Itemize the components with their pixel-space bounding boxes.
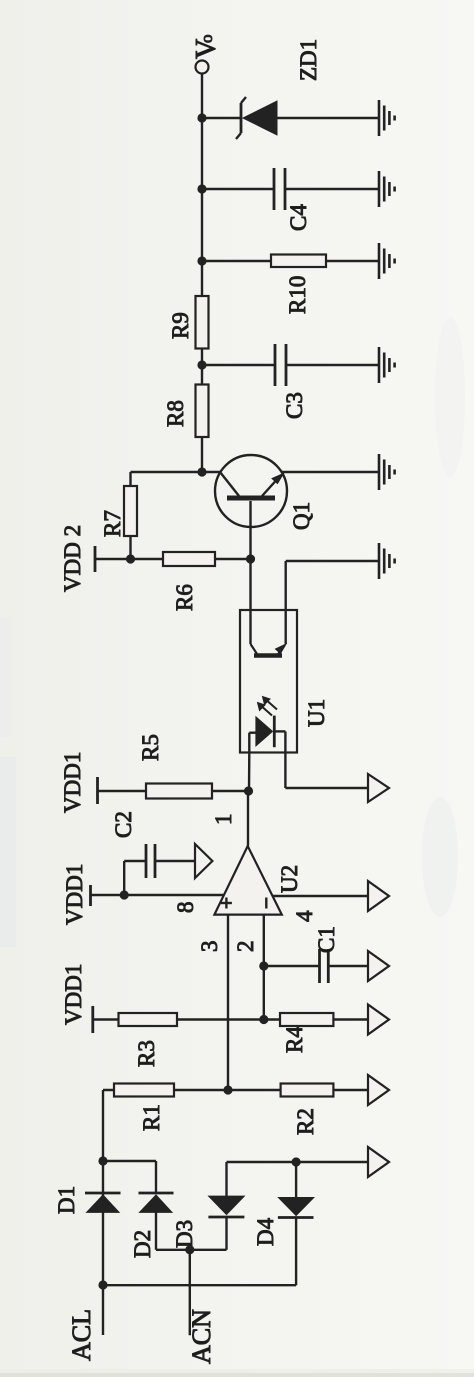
svg-text:R4: R4: [282, 1026, 307, 1053]
svg-text:VDD1: VDD1: [60, 752, 85, 813]
svg-text:o: o: [197, 35, 216, 44]
svg-text:ACN: ACN: [187, 1309, 216, 1364]
svg-text:Q1: Q1: [289, 502, 314, 530]
svg-text:U2: U2: [277, 865, 302, 893]
svg-text:R10: R10: [285, 276, 310, 314]
svg-text:C4: C4: [286, 204, 311, 231]
svg-text:4: 4: [292, 910, 317, 922]
svg-text:C1: C1: [314, 926, 339, 953]
svg-text:R1: R1: [139, 1104, 164, 1131]
svg-text:VDD 2: VDD 2: [60, 525, 85, 592]
svg-text:D4: D4: [253, 1217, 278, 1246]
svg-text:D3: D3: [172, 1220, 197, 1248]
svg-text:C3: C3: [282, 392, 307, 419]
svg-text:VDD1: VDD1: [62, 864, 87, 925]
svg-text:ACL: ACL: [67, 1309, 96, 1361]
svg-text:C2: C2: [111, 811, 136, 838]
svg-text:8: 8: [173, 902, 198, 914]
svg-text:D1: D1: [54, 1186, 79, 1214]
svg-text:R9: R9: [168, 312, 193, 339]
svg-text:R3: R3: [134, 1040, 159, 1067]
svg-text:2: 2: [233, 941, 258, 953]
svg-text:ZD1: ZD1: [296, 39, 321, 81]
svg-text:1: 1: [211, 814, 236, 826]
svg-text:R2: R2: [293, 1108, 318, 1135]
svg-text:U1: U1: [304, 699, 329, 727]
svg-text:R6: R6: [172, 584, 197, 611]
svg-text:R5: R5: [138, 734, 163, 761]
svg-text:VDD1: VDD1: [61, 964, 86, 1025]
svg-text:D2: D2: [130, 1230, 155, 1258]
svg-text:R8: R8: [163, 400, 188, 427]
svg-text:3: 3: [197, 941, 222, 953]
svg-text:R7: R7: [100, 510, 125, 537]
